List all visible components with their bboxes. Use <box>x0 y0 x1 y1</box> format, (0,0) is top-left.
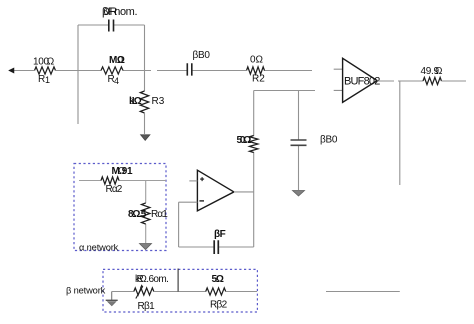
svg-text:R: R <box>110 6 118 18</box>
op-amp U1 <box>197 170 234 211</box>
wire op-amp minus stub <box>179 201 198 203</box>
wire main input y=70 <box>14 70 312 72</box>
alpha network box <box>74 164 166 251</box>
resistor Rb1 variable <box>134 288 154 295</box>
svg-text:R2: R2 <box>252 74 265 85</box>
capacitor C3 <box>291 140 307 145</box>
node stub beta <box>177 269 179 292</box>
svg-text:βF: βF <box>214 229 226 240</box>
svg-text:Rβ2: Rβ2 <box>210 300 228 311</box>
capacitor C1 <box>109 20 114 32</box>
wire beta mid <box>154 291 206 293</box>
wire alpha top <box>79 180 166 182</box>
wire output right <box>442 80 467 82</box>
resistor Ra2 <box>101 177 119 184</box>
resistor R2 <box>247 67 265 74</box>
svg-text:1: 1 <box>131 96 137 107</box>
svg-text:BUF802: BUF802 <box>344 76 380 88</box>
resistor Ra1 <box>142 203 150 224</box>
resistor R4 <box>101 67 123 74</box>
svg-text:Rα2: Rα2 <box>106 184 123 195</box>
svg-text:1: 1 <box>45 75 50 85</box>
minus sign <box>199 200 204 202</box>
svg-text:βB0: βB0 <box>193 50 211 61</box>
svg-text:Rβ1: Rβ1 <box>138 301 156 312</box>
svg-text:R3: R3 <box>152 96 165 107</box>
resistor R1 <box>35 67 56 74</box>
svg-text:Ω: Ω <box>118 166 126 177</box>
capacitor C2 <box>187 63 192 75</box>
wire op-amp output <box>234 191 254 193</box>
wire feedback left vertical <box>178 202 180 247</box>
svg-text:Ω: Ω <box>435 66 443 77</box>
wire R3 to ground <box>144 113 146 134</box>
capacitor CF <box>214 240 218 254</box>
resistor R3 <box>140 91 148 113</box>
wire feedback horizontal <box>179 246 254 248</box>
ground beta <box>111 292 113 301</box>
wire lower y=90.5 <box>254 90 315 92</box>
capacitor C1 loop top wire <box>78 24 145 26</box>
svg-text:4: 4 <box>114 76 119 86</box>
svg-text:β network: β network <box>66 286 106 296</box>
wire feedback bottom <box>326 291 400 293</box>
wire mid vertical x=253.7 <box>253 91 255 248</box>
BUF802 input stubs <box>334 69 343 90</box>
svg-text:0Ω: 0Ω <box>250 55 264 66</box>
svg-text:R: R <box>137 274 144 285</box>
wire feedback vertical right <box>399 81 401 185</box>
wire op-amp plus stub <box>189 180 197 182</box>
input arrow <box>9 68 14 73</box>
plus sign <box>200 177 204 181</box>
svg-text:βB0: βB0 <box>320 135 338 146</box>
svg-text:50Ω: 50Ω <box>237 135 252 146</box>
wire beta right <box>226 291 257 293</box>
svg-text:0: 0 <box>118 55 124 66</box>
svg-text:5Ω: 5Ω <box>212 274 224 285</box>
wire BUF output <box>377 80 423 82</box>
wire mid cap vertical x=298.5 <box>298 91 300 191</box>
wire Ra1 vertical <box>145 181 147 244</box>
beta network box <box>103 269 257 312</box>
svg-text:Rα1: Rα1 <box>151 209 168 220</box>
op-amp U2 BUF802 <box>343 58 378 102</box>
svg-text:Ω: Ω <box>47 57 55 68</box>
resistor RO 49.9 <box>423 77 441 84</box>
svg-text:8Ω.5: 8Ω.5 <box>128 209 147 220</box>
wire beta left <box>112 291 134 293</box>
ground under R3 <box>141 135 150 141</box>
ground under Ra1 <box>140 244 152 250</box>
resistor R5 50 <box>250 136 258 153</box>
ground under C3 <box>293 191 305 197</box>
node A vertical x=78 <box>77 25 79 124</box>
resistor Rb2 <box>206 288 226 295</box>
node B vertical x=144.5 <box>144 25 146 91</box>
svg-text:α network: α network <box>79 243 119 253</box>
